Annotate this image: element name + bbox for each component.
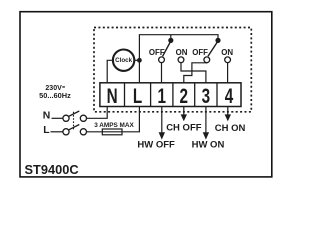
svg-text:N: N (107, 83, 118, 107)
svg-text:ON: ON (176, 48, 188, 57)
svg-text:ON: ON (221, 48, 233, 57)
svg-text:ST9400C: ST9400C (25, 162, 79, 177)
svg-text:HW OFF: HW OFF (137, 139, 175, 150)
svg-text:OFF: OFF (192, 48, 208, 57)
svg-text:3 AMPS MAX: 3 AMPS MAX (94, 122, 134, 129)
svg-text:OFF: OFF (149, 48, 165, 57)
svg-text:2: 2 (180, 83, 188, 107)
svg-text:CH OFF: CH OFF (166, 123, 202, 134)
svg-text:50...60Hz: 50...60Hz (39, 91, 71, 100)
svg-text:L: L (43, 125, 50, 136)
svg-text:HW ON: HW ON (192, 139, 225, 150)
svg-text:N: N (43, 111, 51, 122)
svg-text:CH ON: CH ON (215, 123, 246, 134)
svg-text:3: 3 (202, 83, 210, 107)
svg-text:Clock: Clock (115, 57, 132, 64)
svg-text:4: 4 (225, 83, 234, 107)
svg-text:1: 1 (158, 83, 166, 107)
svg-text:L: L (133, 83, 142, 107)
